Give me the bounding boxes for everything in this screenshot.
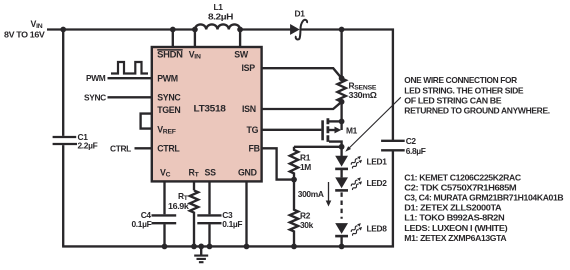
capacitor C4: [132, 210, 177, 229]
resistor RT 16.9k: [168, 190, 198, 246]
svg-text:RETURNED TO GROUND ANYWHERE.: RETURNED TO GROUND ANYWHERE.: [404, 105, 550, 115]
LED LED2: [335, 176, 387, 191]
annotation parts list: [404, 172, 563, 243]
svg-text:0.1µF: 0.1µF: [132, 219, 152, 229]
svg-text:TGEN: TGEN: [157, 105, 180, 115]
svg-text:L1: L1: [214, 2, 224, 12]
svg-text:CTRL: CTRL: [157, 143, 180, 153]
wire top rail from D1 cathode to C2 branch corner: [300, 30, 393, 141]
svg-text:30k: 30k: [300, 220, 314, 230]
pulse waveform PWM input symbol: [111, 62, 148, 74]
ground symbol: [194, 244, 208, 263]
svg-text:M1: M1: [346, 125, 358, 135]
svg-text:SW: SW: [234, 50, 249, 60]
junction LED8 bottom: [339, 244, 345, 250]
LED LED8: [335, 222, 387, 237]
capacitor C1: [53, 30, 98, 247]
wire LED8 to bottom rail: [340, 236, 342, 246]
LED LED1: [335, 155, 387, 170]
svg-text:D1: D1: [295, 8, 306, 18]
svg-text:GND: GND: [238, 167, 257, 177]
wire SW pin to rail: [239, 30, 241, 48]
svg-text:1M: 1M: [300, 162, 311, 172]
svg-text:16.9k: 16.9k: [168, 201, 189, 211]
svg-text:SYNC: SYNC: [157, 92, 181, 102]
svg-text:ONE WIRE CONNECTION FOR: ONE WIRE CONNECTION FOR: [404, 75, 517, 85]
resistor RSENSE 330mOhm: [337, 75, 377, 104]
resistor R1 1M: [290, 147, 312, 183]
wire SS pin down: [208, 181, 210, 214]
svg-text:LT3518: LT3518: [194, 103, 226, 113]
wire TG to M1 gate: [262, 129, 322, 131]
svg-text:SS: SS: [205, 167, 217, 177]
junction node SW pin: [237, 27, 243, 33]
svg-text:0.1µF: 0.1µF: [222, 219, 242, 229]
wire SHDN pin to rail: [172, 30, 174, 48]
svg-text:300mA: 300mA: [298, 189, 324, 199]
wire dashed LED2 to LED8: [341, 192, 343, 218]
capacitor C3: [197, 210, 242, 229]
svg-text:LEDS: LUXEON I (WHITE): LEDS: LUXEON I (WHITE): [404, 223, 508, 233]
transistor M1 (P-MOSFET): [323, 118, 358, 149]
wire top rail from L1/SW to D1 anode: [240, 28, 291, 30]
svg-text:PWM: PWM: [157, 73, 178, 83]
svg-text:SHDN: SHDN: [157, 50, 183, 60]
wire SYNC: [108, 96, 152, 98]
svg-text:C3, C4: MURATA GRM21BR71H104KA: C3, C4: MURATA GRM21BR71H104KA01B: [404, 193, 563, 203]
annotation one-wire note text: [404, 75, 550, 115]
wire PWM: [108, 77, 152, 79]
svg-text:LED8: LED8: [367, 224, 388, 234]
IC U1 LT3518 body: [152, 47, 262, 181]
wire VC pin down: [163, 181, 165, 214]
wire RSENSE to M1 source: [340, 102, 342, 122]
wire R1 top to LED string: [294, 146, 342, 148]
wire ISN: [262, 102, 342, 109]
svg-text:R2: R2: [300, 210, 311, 220]
svg-text:LED STRING. THE OTHER SIDE: LED STRING. THE OTHER SIDE: [404, 85, 524, 95]
resistor R2 30k: [290, 180, 314, 250]
svg-text:ISN: ISN: [242, 104, 256, 114]
junction GND/bottom rail: [244, 244, 250, 250]
svg-text:M1: ZETEX ZXMP6A13GTA: M1: ZETEX ZXMP6A13GTA: [404, 233, 506, 243]
svg-text:TG: TG: [247, 125, 259, 135]
wire RT pin down: [193, 181, 195, 190]
wire bottom rail: [62, 150, 393, 246]
svg-text:C1: KEMET C1206C225K2RAC: C1: KEMET C1206C225K2RAC: [404, 172, 521, 182]
wire M1 drain to LED1: [340, 147, 342, 156]
svg-text:LED2: LED2: [367, 178, 388, 188]
svg-text:OF LED STRING CAN BE: OF LED STRING CAN BE: [404, 95, 502, 105]
svg-text:C2: TDK C5750X7R1H685M: C2: TDK C5750X7R1H685M: [404, 182, 516, 192]
svg-text:6.8µF: 6.8µF: [406, 146, 426, 156]
svg-text:ISP: ISP: [242, 63, 256, 73]
svg-text:L1: TOKO B992AS-8R2N: L1: TOKO B992AS-8R2N: [404, 213, 504, 223]
junction node SHDN: [170, 27, 176, 33]
wire GND pin down: [245, 181, 247, 246]
svg-text:PWM: PWM: [86, 73, 106, 83]
junction node VIN pin: [192, 27, 198, 33]
svg-text:CTRL: CTRL: [110, 143, 131, 153]
wire output rail to RSENSE: [340, 30, 342, 79]
annotation 300mA current arrow: [298, 182, 332, 207]
svg-text:8V TO 16V: 8V TO 16V: [4, 30, 45, 40]
junction RT/bottom rail: [191, 244, 197, 250]
svg-text:C2: C2: [406, 136, 417, 146]
junction node RSENSE top / output: [339, 27, 345, 33]
wire VIN pin to rail: [194, 30, 196, 48]
svg-text:FB: FB: [249, 143, 260, 153]
svg-text:330mΩ: 330mΩ: [349, 90, 378, 100]
svg-text:8.2µH: 8.2µH: [208, 12, 233, 22]
capacitor C2: [381, 136, 426, 156]
wire LED1 to LED2: [340, 169, 342, 178]
diode D1 (Schottky): [290, 8, 307, 39]
svg-text:SYNC: SYNC: [84, 92, 106, 102]
wire CTRL: [135, 147, 152, 149]
junction SS/bottom rail: [207, 244, 213, 250]
junction VC/bottom rail: [162, 244, 168, 250]
node VIN input label: [4, 19, 45, 40]
wire ISP: [262, 68, 342, 78]
wire top rail from VIN to L1: [47, 28, 195, 30]
wire TGEN to VREF loop: [141, 114, 152, 129]
svg-text:LED1: LED1: [367, 157, 388, 167]
svg-text:R1: R1: [300, 152, 311, 162]
inductor L1: [195, 2, 240, 30]
svg-text:D1: ZETEX ZLLS2000TA: D1: ZETEX ZLLS2000TA: [404, 203, 501, 213]
junction node VIN/C1: [60, 27, 66, 33]
annotation callout line to LED string: [345, 97, 401, 152]
wire FB to R1/R2 node: [262, 148, 294, 179]
svg-text:2.2µF: 2.2µF: [78, 141, 98, 151]
